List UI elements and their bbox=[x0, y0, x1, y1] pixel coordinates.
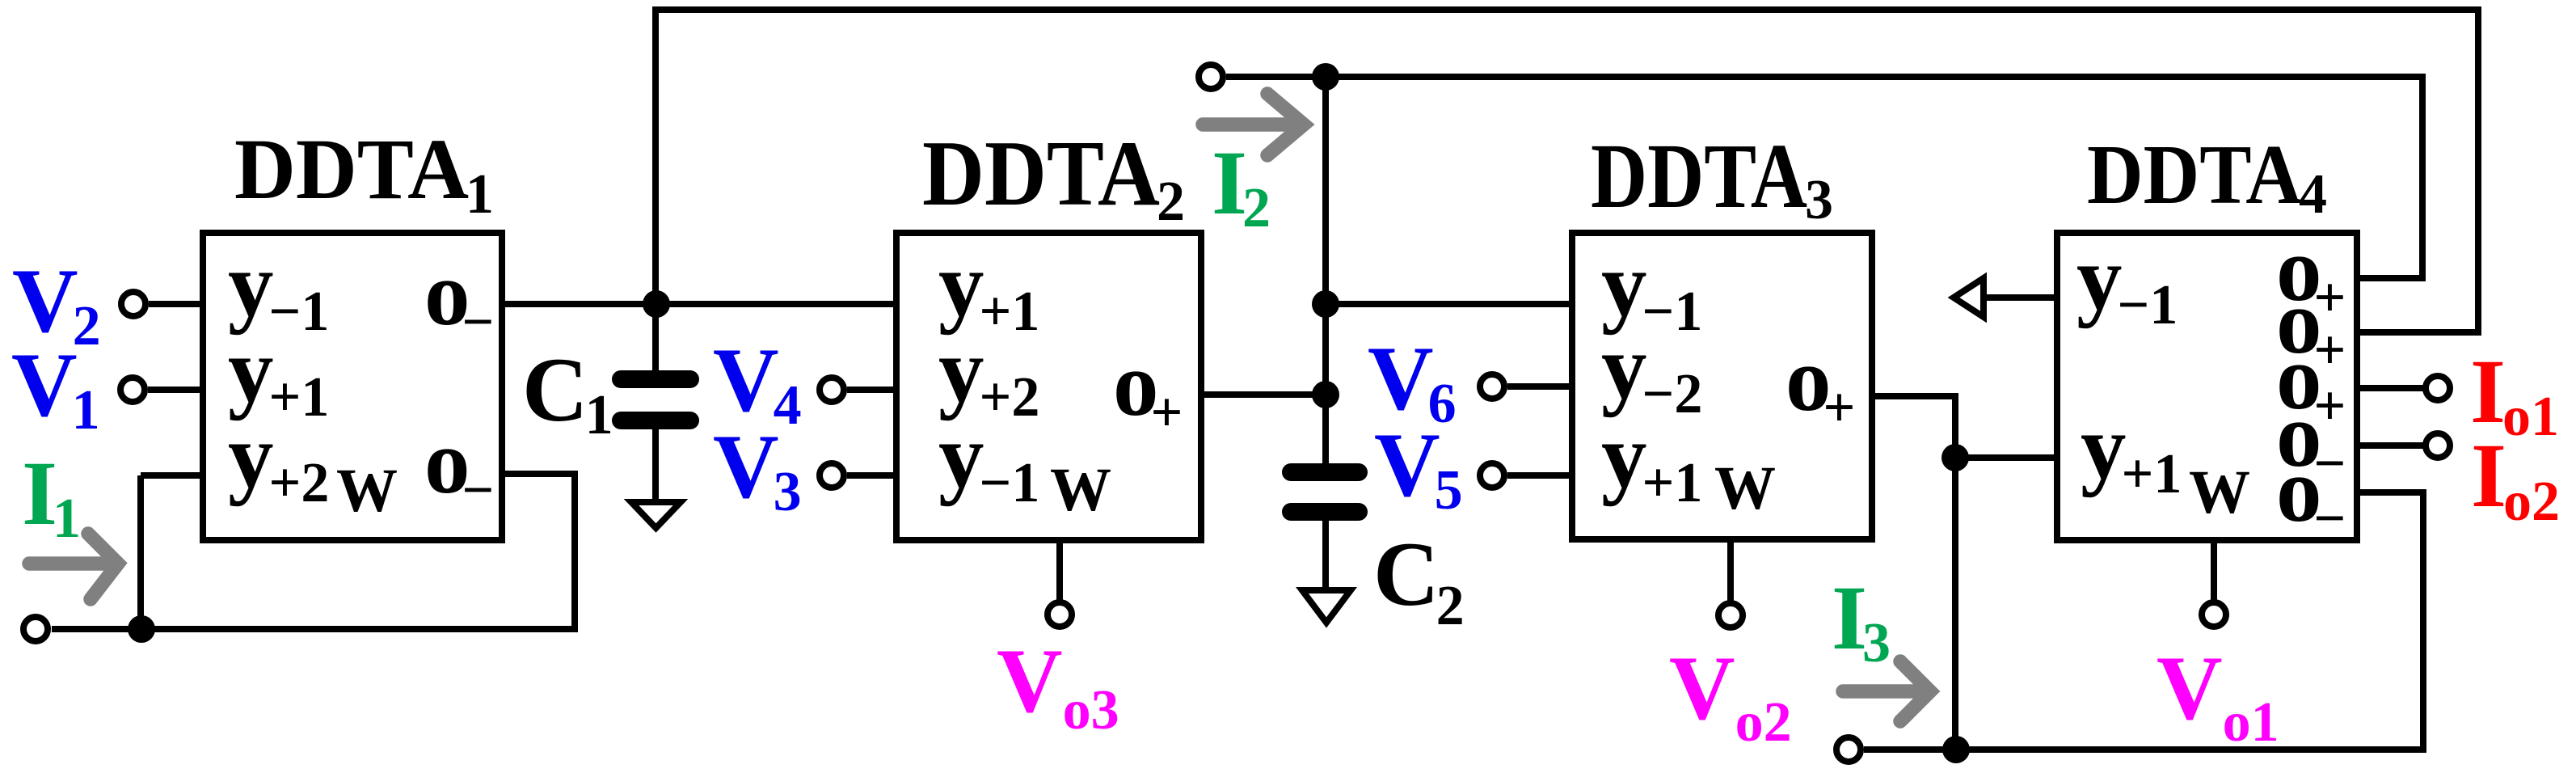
svg-text:I1: I1 bbox=[22, 443, 81, 550]
svg-text:I2: I2 bbox=[1212, 133, 1271, 239]
svg-text:I3: I3 bbox=[1832, 568, 1891, 674]
svg-text:DDTA: DDTA bbox=[234, 122, 469, 218]
svg-text:W: W bbox=[336, 457, 398, 525]
svg-text:3: 3 bbox=[1805, 169, 1833, 231]
svg-text:o−: o− bbox=[424, 412, 494, 522]
svg-text:DDTA: DDTA bbox=[1591, 125, 1807, 227]
svg-text:1: 1 bbox=[466, 163, 494, 226]
svg-text:DDTA: DDTA bbox=[922, 122, 1160, 226]
svg-text:DDTA: DDTA bbox=[2087, 127, 2302, 222]
svg-text:Vo1: Vo1 bbox=[2157, 638, 2279, 754]
svg-text:y−1: y−1 bbox=[2076, 228, 2178, 336]
svg-text:o+: o+ bbox=[1113, 334, 1183, 444]
svg-text:o−: o− bbox=[424, 243, 494, 353]
svg-text:W: W bbox=[1050, 456, 1111, 524]
svg-text:Vo3: Vo3 bbox=[997, 631, 1119, 741]
svg-text:Vo2: Vo2 bbox=[1669, 638, 1792, 754]
svg-text:W: W bbox=[2189, 458, 2250, 526]
svg-text:C2: C2 bbox=[1373, 524, 1465, 637]
svg-text:4: 4 bbox=[2299, 163, 2327, 226]
svg-text:o+: o+ bbox=[1785, 329, 1855, 439]
svg-text:W: W bbox=[1714, 454, 1776, 522]
svg-text:C1: C1 bbox=[522, 340, 613, 446]
svg-text:y+1: y+1 bbox=[2081, 397, 2182, 505]
svg-text:2: 2 bbox=[1157, 171, 1185, 233]
